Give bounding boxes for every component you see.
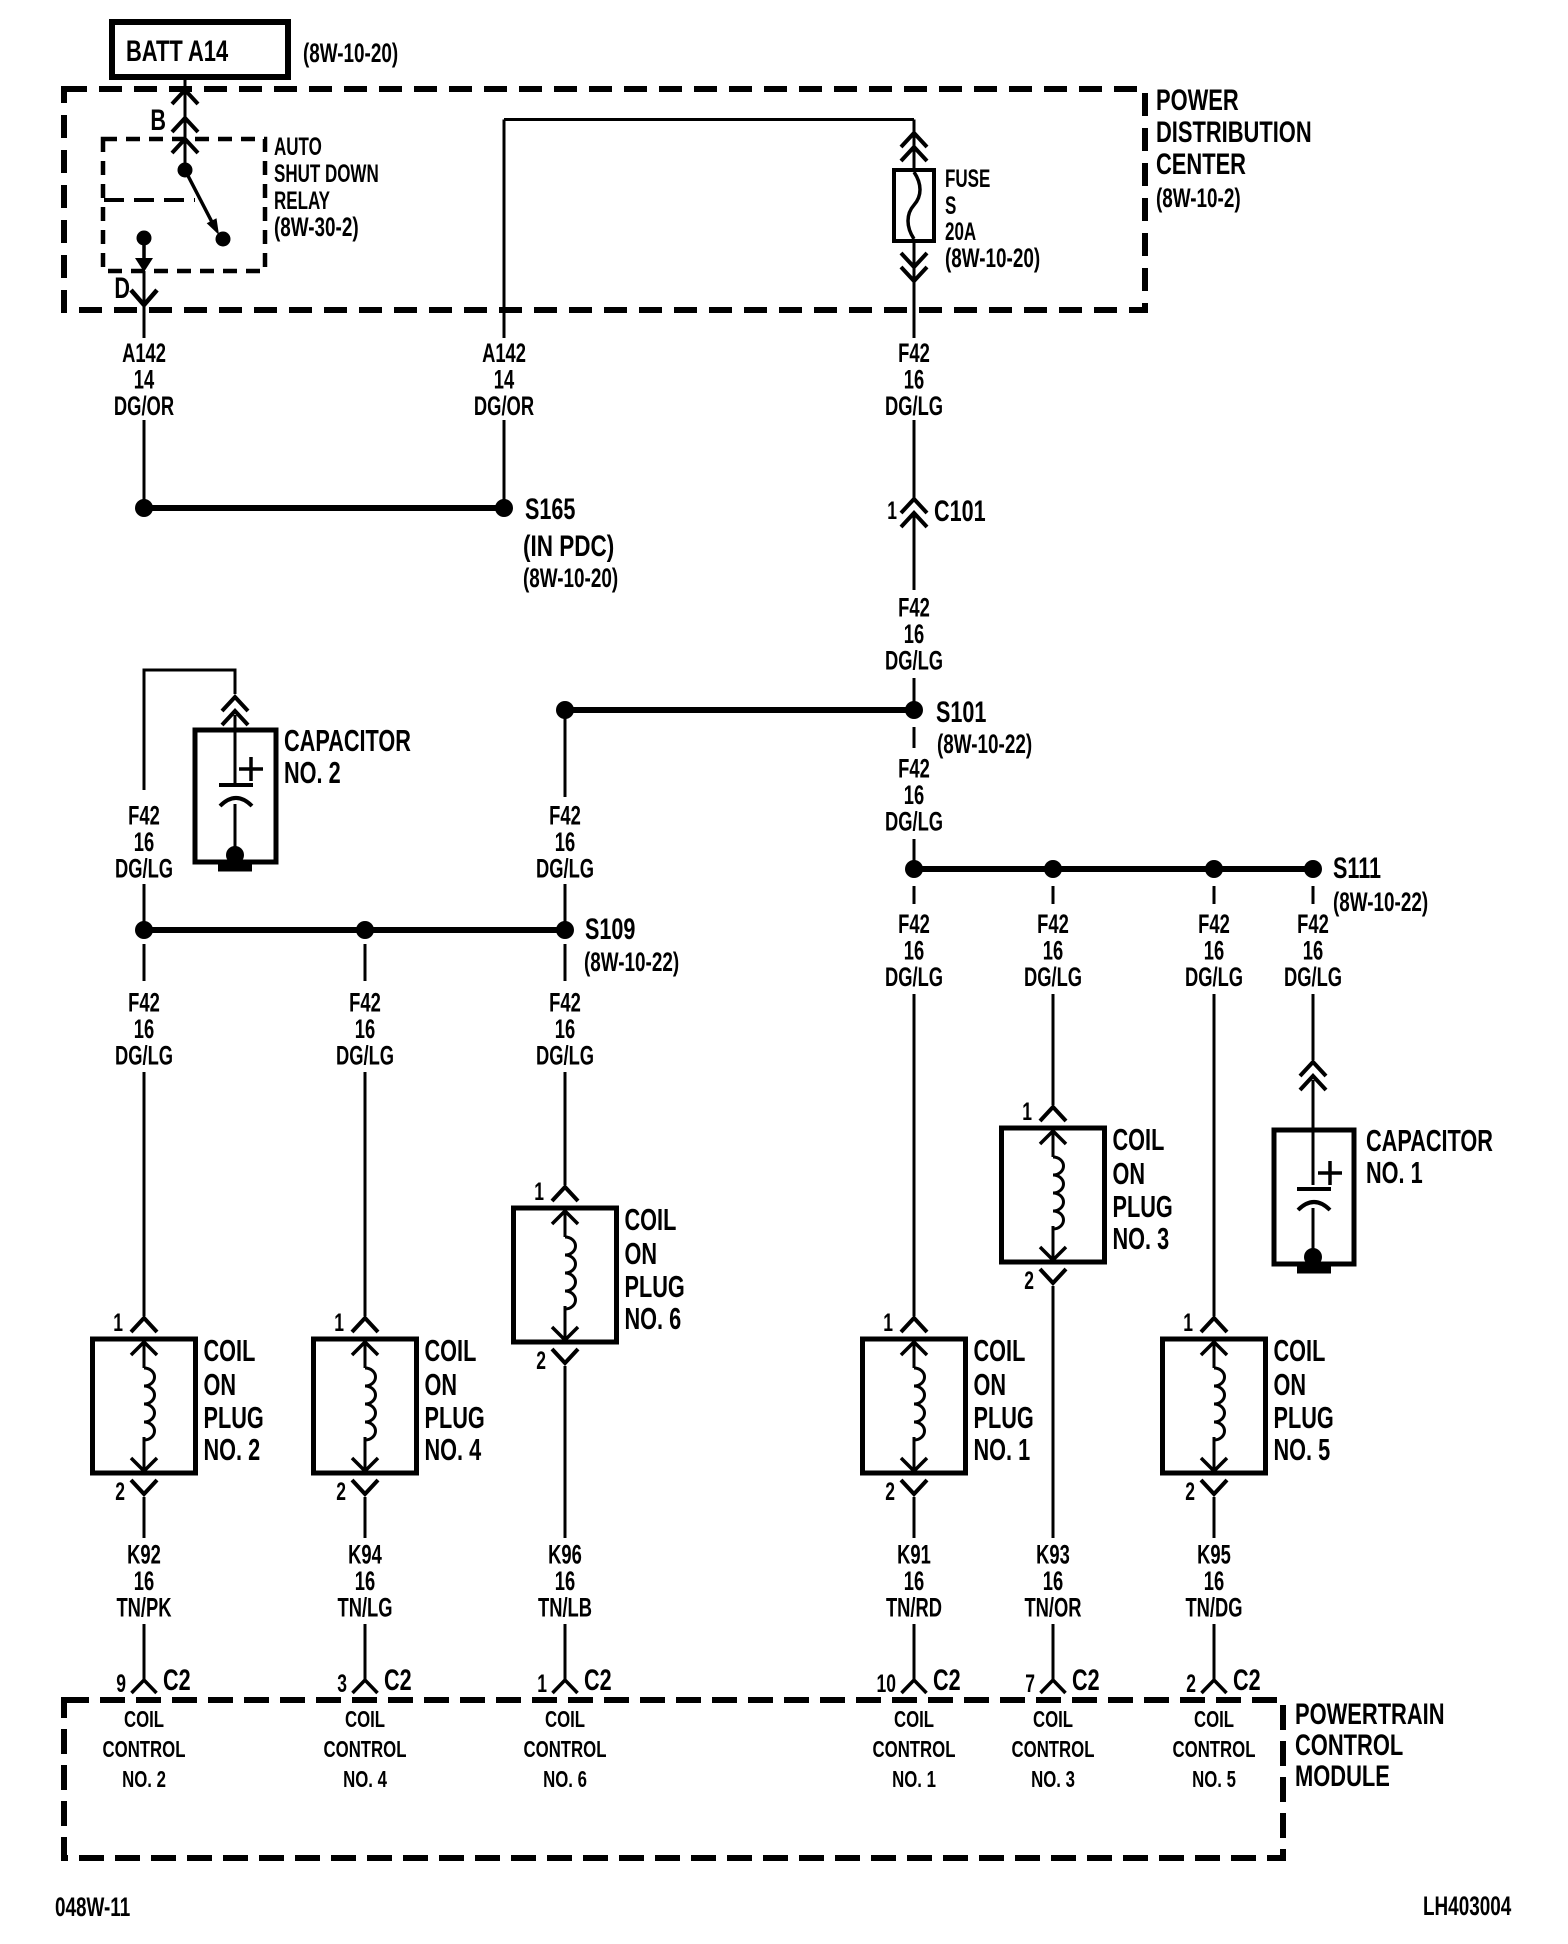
capacitor no.1 internal lead [1312, 1130, 1315, 1185]
capacitor no.2 curved plate [220, 798, 252, 806]
svg-text:DG/LG: DG/LG [885, 391, 943, 421]
coil on plug no. 4 internal bottom arrowhead [352, 1458, 378, 1471]
svg-text:C101: C101 [934, 493, 986, 527]
svg-text:DG/LG: DG/LG [536, 1040, 594, 1070]
svg-text:CAPACITOR: CAPACITOR [1366, 1123, 1493, 1158]
capacitor no.2 lead to ground dot [234, 804, 237, 855]
svg-text:LH403004: LH403004 [1423, 1891, 1511, 1921]
svg-text:DISTRIBUTION: DISTRIBUTION [1156, 115, 1312, 149]
junction dot S111 col3 [1205, 860, 1223, 878]
svg-text:PLUG: PLUG [204, 1400, 264, 1435]
svg-text:NO. 5: NO. 5 [1192, 1768, 1236, 1793]
coil on plug no. 1 box [863, 1339, 966, 1473]
junction dot S111 end [1304, 860, 1322, 878]
coil on plug no. 5 box [1163, 1339, 1266, 1473]
svg-text:ON: ON [625, 1236, 658, 1271]
svg-text:FUSE: FUSE [945, 165, 990, 193]
svg-text:CONTROL: CONTROL [1012, 1738, 1095, 1763]
capacitor no.2 box [195, 730, 276, 862]
wire from S101 branch down [564, 718, 567, 797]
svg-text:TN/LG: TN/LG [337, 1592, 392, 1622]
capacitor no.2 internal lead [234, 715, 237, 785]
wire coil no.6 to K96 label [564, 1366, 567, 1538]
wire down to coil no.2 [143, 1072, 146, 1316]
svg-text:2: 2 [536, 1346, 546, 1375]
coil on plug no. 3 internal bottom arrowhead [1040, 1247, 1066, 1260]
coil on plug no. 4 internal top arrowhead [352, 1342, 378, 1355]
capacitor no.1 box [1274, 1130, 1354, 1264]
wire into PCM connector pin 1 [564, 1624, 567, 1680]
coil on plug no. 3 box [1002, 1128, 1105, 1262]
wire PDC internal feed horizontal [504, 118, 914, 121]
relay internal dashed divider [104, 198, 195, 202]
capacitor no.2 splice chevron pair [222, 697, 248, 711]
coil on plug no. 2 box [93, 1339, 196, 1473]
svg-text:CONTROL: CONTROL [324, 1738, 407, 1763]
connector cavity B chevron pair [172, 90, 198, 104]
junction dot S109 mid [356, 921, 374, 939]
fuse element wavy line [908, 172, 920, 239]
svg-text:1: 1 [1022, 1097, 1032, 1126]
junction dot S111 col1 [905, 860, 923, 878]
fuse output chevron pair [901, 253, 927, 267]
svg-text:CENTER: CENTER [1156, 147, 1246, 181]
coil on plug no. 4 pin 1 chevron [352, 1318, 378, 1332]
capacitor no.2 ground dot [226, 846, 244, 864]
svg-text:DG/LG: DG/LG [536, 853, 594, 883]
svg-text:1: 1 [883, 1308, 893, 1337]
wire down to coil no.1 [913, 994, 916, 1316]
coil on plug no. 6 internal top arrowhead [552, 1211, 578, 1224]
splice S165 bus [144, 505, 504, 511]
wire fuse output down through PDC edge [913, 241, 916, 338]
wire stub below S109 at x=144 [143, 944, 146, 981]
wire stub below S101 [913, 727, 916, 748]
wire into PCM connector pin 9 [143, 1624, 146, 1680]
capacitor no.1 splice chevron pair [1300, 1062, 1326, 1076]
coil on plug no. 6 internal leads [564, 1211, 567, 1237]
relay output arrow down to pin D [142, 238, 146, 262]
wire down to coil no.3 [1052, 994, 1055, 1105]
wire down to capacitor no.1 [1312, 994, 1315, 1060]
splice S101 bus [565, 707, 914, 713]
svg-text:DG/LG: DG/LG [885, 806, 943, 836]
svg-text:NO. 5: NO. 5 [1274, 1432, 1331, 1467]
svg-text:PLUG: PLUG [1113, 1189, 1173, 1224]
wire down to connector C101 [913, 420, 916, 498]
svg-text:ON: ON [1274, 1367, 1307, 1402]
svg-text:COIL: COIL [974, 1333, 1026, 1368]
wire second A142 drop [503, 120, 506, 339]
wire into PCM connector pin 2 [1213, 1624, 1216, 1680]
svg-text:BATT A14: BATT A14 [126, 34, 228, 68]
coil on plug no. 3 winding [1053, 1157, 1064, 1229]
svg-text:TN/PK: TN/PK [116, 1592, 171, 1622]
coil on plug no. 5 pin 1 chevron [1201, 1318, 1227, 1332]
relay terminal chevron at relay box edge [172, 139, 198, 153]
coil on plug no. 3 internal top arrowhead [1040, 1131, 1066, 1144]
coil on plug no. 6 internal bottom arrowhead [552, 1327, 578, 1340]
svg-text:(8W-10-20): (8W-10-20) [523, 563, 618, 593]
svg-text:COIL: COIL [1274, 1333, 1326, 1368]
wire into S109 right [564, 884, 567, 922]
svg-text:NO. 4: NO. 4 [343, 1768, 388, 1793]
wire into S109 [143, 884, 146, 922]
coil on plug no. 4 pin 2 chevron [352, 1480, 378, 1494]
svg-text:NO. 1: NO. 1 [974, 1432, 1031, 1467]
capacitor no.1 top plate [1297, 1187, 1331, 1191]
coil on plug no. 6 pin 1 chevron [552, 1187, 578, 1201]
relay switch arm with arrowhead [185, 170, 214, 226]
coil on plug no. 6 pin 2 chevron [552, 1349, 578, 1363]
svg-text:COIL: COIL [1113, 1122, 1165, 1157]
junction dot S101 branch [556, 701, 574, 719]
svg-text:POWERTRAIN: POWERTRAIN [1295, 1697, 1445, 1731]
wire stub into splice S101 [913, 678, 916, 702]
svg-text:DG/LG: DG/LG [885, 645, 943, 675]
coil on plug no. 1 internal leads [913, 1342, 916, 1368]
junction dot S101 [905, 701, 923, 719]
svg-text:ON: ON [974, 1367, 1007, 1402]
svg-text:C2: C2 [163, 1662, 191, 1696]
svg-text:DG/LG: DG/LG [885, 962, 943, 992]
coil on plug no. 4 box [314, 1339, 417, 1473]
svg-text:1: 1 [113, 1308, 123, 1337]
powertrain control module dashed box [64, 1700, 1283, 1858]
wire into PCM connector pin 3 [364, 1624, 367, 1680]
wire C101 to label [913, 516, 916, 590]
wire coil no.3 to K93 label [1052, 1286, 1055, 1538]
wire BATT to ASD relay pin B [184, 77, 187, 170]
svg-text:DG/LG: DG/LG [115, 853, 173, 883]
svg-text:C2: C2 [1072, 1662, 1100, 1696]
coil on plug no. 2 pin 2 chevron [131, 1480, 157, 1494]
coil on plug no. 3 pin 2 chevron [1040, 1269, 1066, 1283]
coil on plug no. 1 internal bottom arrowhead [901, 1458, 927, 1471]
svg-text:ON: ON [425, 1367, 458, 1402]
svg-text:S109: S109 [585, 911, 635, 945]
wire coil no.1 to K91 label [913, 1497, 916, 1538]
coil on plug no. 4 internal leads [364, 1342, 367, 1368]
svg-text:(8W-10-22): (8W-10-22) [584, 947, 679, 977]
coil on plug no. 2 internal top arrowhead [131, 1342, 157, 1355]
svg-text:POWER: POWER [1156, 83, 1239, 117]
svg-text:(IN PDC): (IN PDC) [523, 529, 614, 563]
fuse S box [894, 170, 934, 241]
svg-text:CONTROL: CONTROL [1295, 1728, 1403, 1762]
coil on plug no. 3 pin 1 chevron [1040, 1107, 1066, 1121]
capacitor no.1 ground bar [1297, 1267, 1331, 1274]
svg-text:COIL: COIL [545, 1708, 585, 1733]
wire coil no.5 to K95 label [1213, 1497, 1216, 1538]
capacitor no.2 plus sign [239, 767, 263, 771]
svg-text:NO. 2: NO. 2 [204, 1432, 261, 1467]
wire coil no.2 to K92 label [143, 1497, 146, 1538]
wire stub into S111 bus [913, 839, 916, 861]
svg-text:1: 1 [534, 1177, 544, 1206]
svg-text:S: S [945, 192, 956, 220]
coil on plug no. 2 internal bottom arrowhead [131, 1458, 157, 1471]
PCM connector Y terminal pin 9 [132, 1680, 157, 1693]
wire branch to capacitor no.2 [144, 670, 235, 790]
svg-text:TN/OR: TN/OR [1024, 1592, 1081, 1622]
svg-text:1: 1 [334, 1308, 344, 1337]
coil on plug no. 6 winding [565, 1237, 576, 1309]
coil on plug no. 5 internal leads [1213, 1342, 1216, 1368]
capacitor no.1 lead to ground dot [1312, 1208, 1315, 1257]
svg-text:NO. 1: NO. 1 [1366, 1155, 1423, 1190]
svg-text:PLUG: PLUG [1274, 1400, 1334, 1435]
svg-text:PLUG: PLUG [625, 1269, 685, 1304]
coil on plug no. 5 internal bottom arrowhead [1201, 1458, 1227, 1471]
capacitor no.2 top plate [219, 783, 253, 787]
svg-text:RELAY: RELAY [274, 187, 330, 215]
coil on plug no. 4 winding [365, 1368, 376, 1440]
svg-text:TN/LB: TN/LB [538, 1592, 592, 1622]
coil on plug no. 3 internal leads [1052, 1131, 1055, 1157]
power distribution center dashed box [64, 89, 1145, 310]
svg-text:NO. 2: NO. 2 [284, 755, 341, 790]
svg-text:COIL: COIL [1194, 1708, 1234, 1733]
junction dot S165 right [495, 499, 513, 517]
svg-text:CONTROL: CONTROL [524, 1738, 607, 1763]
wire into PCM connector pin 10 [913, 1624, 916, 1680]
junction dot S109 left [135, 921, 153, 939]
connector C101 chevron pair [901, 499, 927, 513]
fuse input chevron pair [901, 133, 927, 147]
wire A142 right down to splice S165 [503, 420, 506, 502]
svg-text:TN/RD: TN/RD [886, 1592, 942, 1622]
svg-text:2: 2 [1024, 1266, 1034, 1295]
coil on plug no. 1 internal top arrowhead [901, 1342, 927, 1355]
svg-text:C2: C2 [1233, 1662, 1261, 1696]
wire stub below S109 at x=365 [364, 944, 367, 981]
svg-text:NO. 2: NO. 2 [122, 1768, 166, 1793]
wire stub below S111 bus at x=1053 [1052, 886, 1055, 904]
connector cavity D chevron [131, 290, 157, 305]
auto shut down relay dashed box [103, 139, 265, 271]
junction dot S109 right [556, 921, 574, 939]
coil on plug no. 1 winding [914, 1368, 925, 1440]
svg-text:(8W-10-20): (8W-10-20) [945, 243, 1040, 273]
svg-text:DG/LG: DG/LG [1024, 962, 1082, 992]
relay switch contact dot [216, 232, 231, 247]
relay switch common dot [178, 163, 193, 178]
svg-text:NO. 1: NO. 1 [892, 1768, 936, 1793]
svg-text:10: 10 [877, 1669, 896, 1698]
wire into capacitor no.1 [1312, 1080, 1315, 1130]
wire into PCM connector pin 7 [1052, 1624, 1055, 1680]
svg-text:NO. 6: NO. 6 [625, 1301, 682, 1336]
svg-text:2: 2 [1186, 1669, 1196, 1698]
wire stub below S111 bus at x=1214 [1213, 886, 1216, 904]
svg-text:3: 3 [337, 1669, 347, 1698]
svg-text:NO. 3: NO. 3 [1031, 1768, 1075, 1793]
svg-text:2: 2 [336, 1477, 346, 1506]
svg-text:PLUG: PLUG [974, 1400, 1034, 1435]
splice S111 bus [914, 866, 1313, 872]
svg-text:2: 2 [1185, 1477, 1195, 1506]
coil on plug no. 2 internal leads [143, 1342, 146, 1368]
capacitor no.2 ground bar [218, 865, 252, 872]
wire coil no.4 to K94 label [364, 1497, 367, 1538]
svg-text:NO. 4: NO. 4 [425, 1432, 482, 1467]
svg-text:COIL: COIL [1033, 1708, 1073, 1733]
coil on plug no. 2 winding [144, 1368, 155, 1440]
svg-text:COIL: COIL [204, 1333, 256, 1368]
wire fuse feed drop [913, 120, 916, 171]
svg-text:DG/LG: DG/LG [1284, 962, 1342, 992]
coil on plug no. 2 pin 1 chevron [131, 1318, 157, 1332]
coil on plug no. 5 winding [1214, 1368, 1225, 1440]
svg-text:2: 2 [115, 1477, 125, 1506]
wire stub below S111 bus at x=914 [913, 886, 916, 904]
svg-text:2: 2 [885, 1477, 895, 1506]
svg-text:TN/DG: TN/DG [1185, 1592, 1242, 1622]
wire down to coil no.5 [1213, 994, 1216, 1316]
svg-text:NO. 3: NO. 3 [1113, 1221, 1170, 1256]
svg-text:C2: C2 [584, 1662, 612, 1696]
coil on plug no. 5 pin 2 chevron [1201, 1480, 1227, 1494]
svg-text:20A: 20A [945, 218, 976, 246]
svg-text:CAPACITOR: CAPACITOR [284, 723, 411, 758]
wire stub below S109 at x=565 [564, 944, 567, 981]
PCM connector Y terminal pin 1 [553, 1680, 578, 1693]
svg-text:ON: ON [204, 1367, 237, 1402]
svg-text:COIL: COIL [425, 1333, 477, 1368]
svg-text:ON: ON [1113, 1156, 1146, 1191]
PCM connector Y terminal pin 2 [1202, 1680, 1227, 1693]
wire relay pin D down through PDC edge [143, 271, 146, 338]
svg-text:(8W-30-2): (8W-30-2) [274, 212, 359, 242]
svg-text:C2: C2 [384, 1662, 412, 1696]
capacitor no.1 plus sign [1318, 1171, 1342, 1175]
svg-text:9: 9 [116, 1669, 126, 1698]
svg-text:7: 7 [1025, 1669, 1035, 1698]
svg-text:DG/LG: DG/LG [336, 1040, 394, 1070]
wire down to coil no.4 [364, 1072, 367, 1316]
svg-text:(8W-10-22): (8W-10-22) [937, 729, 1032, 759]
svg-text:B: B [150, 102, 166, 136]
PCM connector Y terminal pin 10 [902, 1680, 927, 1693]
svg-text:DG/LG: DG/LG [1185, 962, 1243, 992]
svg-text:AUTO: AUTO [274, 133, 322, 161]
junction dot S165 left [135, 499, 153, 517]
svg-text:048W-11: 048W-11 [55, 1892, 130, 1922]
svg-text:NO. 6: NO. 6 [543, 1768, 587, 1793]
svg-text:CONTROL: CONTROL [103, 1738, 186, 1763]
svg-text:1: 1 [537, 1669, 547, 1698]
svg-text:(8W-10-2): (8W-10-2) [1156, 183, 1241, 213]
coil on plug no. 1 pin 1 chevron [901, 1318, 927, 1332]
svg-text:PLUG: PLUG [425, 1400, 485, 1435]
PCM connector Y terminal pin 3 [353, 1680, 378, 1693]
svg-text:COIL: COIL [345, 1708, 385, 1733]
svg-text:(8W-10-20): (8W-10-20) [303, 38, 398, 68]
splice S109 bus [144, 927, 565, 933]
svg-text:(8W-10-22): (8W-10-22) [1333, 887, 1428, 917]
coil on plug no. 6 box [514, 1208, 617, 1342]
PCM connector Y terminal pin 7 [1041, 1680, 1066, 1693]
capacitor no.1 curved plate [1298, 1202, 1330, 1210]
svg-text:C2: C2 [933, 1662, 961, 1696]
battery feed label box BATT A14 [112, 22, 288, 77]
coil on plug no. 5 internal top arrowhead [1201, 1342, 1227, 1355]
svg-text:S101: S101 [936, 694, 986, 728]
capacitor no.1 ground dot [1304, 1248, 1322, 1266]
svg-text:1: 1 [1183, 1308, 1193, 1337]
svg-text:S165: S165 [525, 491, 575, 525]
svg-text:COIL: COIL [894, 1708, 934, 1733]
svg-text:S111: S111 [1333, 850, 1381, 884]
coil on plug no. 1 pin 2 chevron [901, 1480, 927, 1494]
junction dot S111 col2 [1044, 860, 1062, 878]
svg-text:COIL: COIL [124, 1708, 164, 1733]
svg-text:DG/OR: DG/OR [114, 391, 174, 421]
svg-text:COIL: COIL [625, 1202, 677, 1237]
svg-text:1: 1 [887, 496, 897, 525]
svg-text:MODULE: MODULE [1295, 1759, 1390, 1793]
wire down to coil no.6 [564, 1072, 567, 1185]
svg-text:DG/OR: DG/OR [474, 391, 534, 421]
relay output contact dot [137, 231, 152, 246]
svg-text:D: D [114, 270, 130, 304]
svg-text:DG/LG: DG/LG [115, 1040, 173, 1070]
svg-text:CONTROL: CONTROL [1173, 1738, 1256, 1763]
wire A142 left down to splice S165 [143, 420, 146, 502]
svg-text:SHUT DOWN: SHUT DOWN [274, 160, 379, 188]
wire stub below S111 bus at x=1313 [1312, 886, 1315, 904]
svg-text:CONTROL: CONTROL [873, 1738, 956, 1763]
